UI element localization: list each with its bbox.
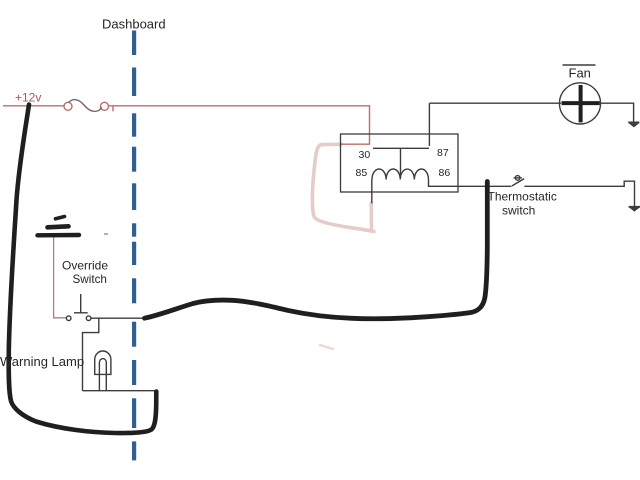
svg-text:Fan: Fan xyxy=(569,65,591,80)
svg-text:Dashboard: Dashboard xyxy=(102,16,166,31)
svg-text:86: 86 xyxy=(439,167,451,179)
svg-text:Override: Override xyxy=(62,259,108,273)
svg-text:85: 85 xyxy=(356,167,368,179)
svg-text:Thermostatic: Thermostatic xyxy=(488,190,557,204)
svg-text:87: 87 xyxy=(437,147,449,159)
svg-text:+12v: +12v xyxy=(15,91,41,105)
svg-text:Switch: Switch xyxy=(73,273,107,286)
svg-text:switch: switch xyxy=(502,204,535,218)
svg-text:Warning Lamp: Warning Lamp xyxy=(0,354,84,369)
svg-text:30: 30 xyxy=(359,149,371,161)
